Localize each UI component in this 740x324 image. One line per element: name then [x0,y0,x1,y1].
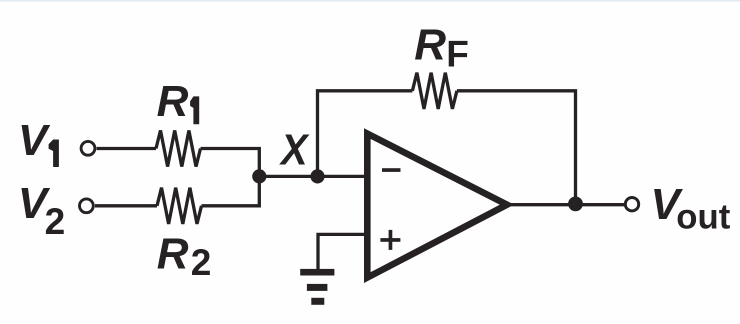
label R1 [157,77,200,126]
wire R1 to node [201,149,260,177]
terminal V1 [81,141,95,155]
wire feedback right [457,91,576,204]
label RF [414,21,469,75]
junction dot X [310,169,324,183]
wire plus input to ground [318,234,367,269]
wire V2 to R2 [95,204,157,207]
svg-text:out: out [676,197,730,236]
label R2 [157,230,212,283]
svg-text:V: V [18,116,51,165]
wire output [507,203,625,206]
svg-text:2: 2 [45,201,66,242]
svg-text:2: 2 [191,242,212,283]
svg-text:R: R [414,21,446,70]
resistor RF [412,73,457,109]
wire feedback left [318,91,413,177]
svg-text:X: X [278,126,310,175]
junction dot output [568,197,583,212]
svg-text:F: F [446,34,469,75]
plus sign [380,230,400,250]
label V1 [18,116,59,167]
op-amp U1 [367,134,507,278]
svg-text:R: R [157,77,189,126]
resistor R1 [156,130,201,166]
svg-text:R: R [157,230,189,279]
junction dot node [252,169,266,183]
wire node to op-amp [259,175,367,178]
label V2 [18,179,65,242]
resistor R2 [157,188,202,224]
wire R2 to node [202,176,260,205]
label Vout [651,180,731,236]
terminal Vout [625,198,638,211]
wire V1 to R1 [97,147,156,150]
terminal V2 [80,199,94,213]
ground [300,269,334,305]
minus sign [382,168,401,172]
